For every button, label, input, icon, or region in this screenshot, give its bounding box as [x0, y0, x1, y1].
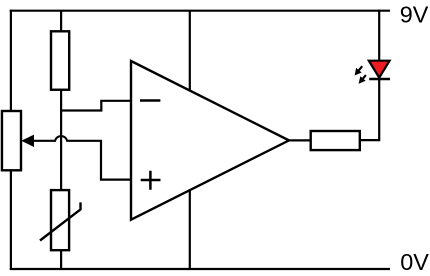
wire R1 bottom to thermistor top (vertical, crosses wiper wire)	[60, 90, 62, 190]
resistor R1 body	[51, 31, 69, 89]
wire junction to inverting input (steps up)	[61, 101, 131, 111]
svg-text:9V: 9V	[400, 2, 429, 28]
wire R1 top lead (9V rail to R1)	[60, 11, 62, 32]
wire 0V bottom rail	[10, 268, 390, 270]
wire op-amp output to R2	[289, 139, 311, 141]
thermistor TH1 diagonal stroke	[40, 202, 81, 240]
wire thermistor bottom lead to 0V rail	[60, 250, 62, 269]
thermistor TH1 body	[51, 190, 69, 250]
wire op-amp positive supply (9V rail to top edge)	[189, 11, 191, 91]
op-amp U1 triangle	[131, 61, 289, 220]
potentiometer wiper arrow	[21, 135, 34, 147]
op-amp U1 plus symbol	[141, 171, 161, 190]
wire LED branch vertical (cathode side)	[378, 79, 380, 141]
svg-text:0V: 0V	[400, 249, 429, 275]
op-amp U1 minus symbol	[140, 99, 160, 102]
LED D1 light arrow lower	[359, 75, 366, 84]
wire R2 to LED branch corner	[360, 139, 379, 141]
wire left column top (9V rail to potentiometer top)	[10, 10, 12, 111]
potentiometer VR1 body	[2, 111, 21, 170]
LED D1 triangle (red)	[369, 61, 390, 78]
wire wiper to non-inverting input (with hop over vertical wire, steps down)	[31, 136, 131, 180]
LED D1 cathode bar	[369, 78, 390, 80]
LED D1 light arrow upper	[355, 66, 363, 75]
node 0V label	[400, 249, 429, 275]
wire 9V top rail	[10, 10, 390, 12]
wire op-amp negative supply (bottom edge to 0V rail)	[189, 190, 191, 269]
wire LED anode to 9V rail	[378, 10, 380, 60]
node 9V label	[400, 2, 429, 28]
wire left column bottom (potentiometer bottom to 0V rail)	[10, 170, 12, 269]
resistor R2 body	[311, 131, 360, 150]
